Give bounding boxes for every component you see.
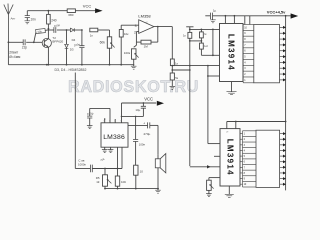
wire detector tap down (long vertical) (74, 73, 76, 169)
IC U4 LM3914 (220, 129, 240, 186)
VCC top rail (27, 10, 67, 12)
capacitor C7 100p (input filter) (90, 107, 110, 109)
wire feedback to output (157, 27, 159, 42)
resistor R2 240 (collector load) (48, 10, 50, 12)
svg-text:D4: D4 (72, 38, 76, 42)
wire op-amp output (154, 26, 172, 28)
wire R4 to pot (98, 29, 110, 31)
node B (201, 40, 203, 42)
svg-text:LM3914: LM3914 (227, 34, 236, 71)
svg-text:20вит: 20вит (9, 51, 18, 55)
diode D4 (series, right) (70, 28, 74, 32)
svg-text:2: 2 (134, 31, 136, 35)
svg-text:10µ: 10µ (135, 108, 140, 112)
wire ref to U3 (172, 65, 219, 67)
svg-text:1К: 1К (96, 180, 100, 184)
LM386 top pin wires (104, 119, 106, 123)
wire inverting input down (135, 32, 137, 42)
svg-text:VCC: VCC (144, 97, 153, 102)
wire to U3 lower pin (208, 75, 220, 77)
wire R2 to collector node (47, 24, 49, 39)
svg-text:22p: 22p (22, 46, 28, 50)
stub U4 pin (214, 155, 220, 157)
wire to U3 pin (201, 54, 219, 56)
svg-text:VCC+4,5v: VCC+4,5v (267, 9, 286, 14)
wire R6 to ground rail (120, 37, 122, 65)
U4 bottom pin + ground (228, 186, 230, 194)
svg-text:LM386: LM386 (103, 134, 125, 141)
svg-text:100к: 100к (124, 51, 131, 55)
VCC arrow (middle) (157, 101, 164, 106)
node collector (48, 28, 50, 30)
wire to speaker (157, 125, 159, 154)
ground under R13 (170, 86, 176, 89)
wire top feed U4 (227, 121, 286, 123)
resistor R14 1k (188, 32, 192, 38)
VCC+4.5v top rail (205, 15, 210, 17)
svg-text:D3, D4 - HSMS2852: D3, D4 - HSMS2852 (55, 68, 87, 72)
ground under R17 (206, 194, 212, 197)
svg-text:470µ: 470µ (143, 132, 150, 136)
LED display H2 body (256, 130, 280, 187)
wire R3 right lead (45, 29, 48, 31)
capacitor C2 22p (input coupling) (8, 41, 23, 43)
svg-text:10К: 10К (121, 180, 126, 184)
svg-text:RADIOSKOT.RU: RADIOSKOT.RU (68, 78, 199, 96)
resistor R9 10 (zobel) (134, 165, 138, 175)
ground rail (bottom of RF section) (8, 64, 134, 66)
svg-text:8: 8 (120, 121, 121, 123)
ground U3 (226, 92, 236, 95)
svg-text:240: 240 (51, 19, 57, 23)
op-amp U1 LM358 (139, 20, 154, 34)
ground under C7 (87, 126, 93, 129)
node antenna tap (7, 41, 9, 43)
bottom ground bus (105, 188, 158, 190)
wire rail2 down (212, 29, 214, 55)
node A (171, 69, 173, 71)
capacitor C3 100n (detector coupling) (48, 29, 54, 31)
resistor R12 1k (170, 59, 174, 66)
rail 2 (ref wire) (190, 28, 220, 30)
svg-text:1000п: 1000п (78, 163, 86, 167)
svg-text:60k: 60k (100, 41, 106, 45)
resistor R13 (170, 73, 174, 80)
svg-text:LM358: LM358 (138, 14, 151, 19)
LED H2 anode arrows (280, 133, 284, 135)
trimmer R8 100k (135, 42, 137, 45)
node VCC junction (143, 102, 145, 104)
resistor R3 10k (feedback, tilted) (36, 29, 46, 35)
LED bargraph H2 pins ladder (242, 131, 244, 187)
svg-text:1: 1 (114, 121, 115, 123)
capacitor C6 1000p (series coupling) (75, 168, 90, 170)
wire pin3 down (117, 147, 119, 176)
resistor R4 1k (detector series) (90, 28, 98, 32)
LED H1 anode arrows (280, 26, 284, 28)
svg-text:100н: 100н (139, 142, 146, 146)
resistor R1 680 (in VCC rail) (67, 9, 75, 13)
resistor R11 10k (115, 176, 119, 186)
LED bar H1 pin ladder (242, 25, 244, 83)
wire rail to LED bar anode stubs (244, 16, 246, 25)
resistor R7 1M (feedback) (136, 41, 141, 43)
svg-text:3: 3 (135, 24, 137, 28)
wire down to R5 (109, 30, 111, 37)
svg-text:1М: 1М (144, 45, 149, 49)
VCC T-stub (186, 26, 193, 28)
resistor R15 (200, 29, 202, 32)
svg-text:10к: 10к (124, 32, 129, 36)
ground pin4 (108, 150, 114, 153)
wire to U4 input pin (208, 143, 220, 145)
audio amp U2 LM386 (101, 123, 128, 147)
svg-text:5: 5 (109, 121, 110, 123)
ground pin2 (102, 150, 108, 153)
svg-text:D3: D3 (70, 48, 74, 52)
wire divider vertical down (189, 38, 191, 166)
svg-text:BFP620: BFP620 (52, 40, 63, 44)
node base (33, 41, 35, 43)
wire pin8 bypass chain (122, 115, 144, 117)
antenna W1 (4, 4, 13, 43)
ground under C1 (25, 21, 31, 24)
U3 bottom pin + ground (231, 82, 233, 92)
wire node A to divider (172, 69, 190, 71)
svg-text:VCC: VCC (83, 3, 92, 8)
svg-text:LM3914: LM3914 (226, 139, 235, 176)
speaker SP1 (155, 159, 160, 168)
wire R6 top (120, 25, 122, 29)
capacitor C8 10u (supply bypass) (142, 103, 144, 106)
transistor T2 BFP620 (42, 38, 51, 47)
potentiometer R10 1K (volume) (104, 168, 106, 170)
VCC+4.5v arrow (291, 13, 299, 18)
ground speaker return (155, 190, 161, 193)
VCC stub (LM386 supply) (122, 102, 157, 104)
capacitor C9 100n (zobel) (135, 116, 137, 139)
trimmer R17 (209, 177, 220, 179)
capacitor C4 100n (filter) (81, 29, 83, 31)
LED supply rail (right edge) (285, 16, 287, 191)
capacitor C11 1u (210, 13, 212, 19)
wire antenna down to ground rail (7, 42, 9, 64)
svg-text:1к2: 1к2 (204, 45, 208, 48)
svg-text:1µ: 1µ (213, 9, 217, 13)
svg-text:Ант: Ант (11, 17, 17, 21)
wire divider to U4 pin (190, 166, 220, 168)
wire R3 left lead to base (34, 32, 36, 42)
svg-text:Ø=4мм: Ø=4мм (9, 55, 21, 59)
capacitor C1 10n (rail decoupling) (26, 11, 28, 16)
svg-text:680: 680 (68, 13, 73, 17)
ground U4 (225, 194, 234, 197)
wire output chain vertical (171, 27, 173, 59)
ground under C11 (210, 20, 216, 23)
svg-text:10n: 10n (31, 17, 37, 21)
U3 top pin wires (224, 16, 226, 24)
node output (157, 26, 159, 28)
svg-text:10: 10 (140, 169, 144, 173)
svg-text:+: + (143, 122, 145, 126)
IC U3 LM3914 (220, 24, 244, 82)
wire down to U4 (207, 66, 209, 144)
svg-text:6: 6 (104, 121, 105, 123)
LM386 bottom pins + grounds (104, 147, 106, 149)
ground at rail end (133, 65, 135, 67)
VCC arrow (left section) (95, 8, 103, 13)
capacitor C10 470u (output) (128, 124, 147, 126)
diode D3 (shunt, down) (66, 29, 68, 31)
wire emitter to ground rail (47, 47, 49, 64)
LED display H1 body (254, 25, 280, 83)
wire pin5 down (121, 147, 123, 168)
resistor R16 (200, 43, 204, 49)
